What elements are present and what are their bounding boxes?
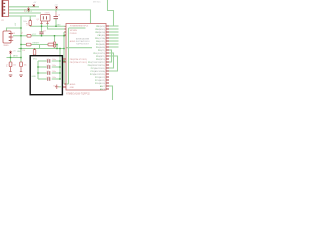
svg-text:GND: GND: [70, 87, 75, 89]
svg-text:PC2(ADC2): PC2(ADC2): [95, 76, 105, 79]
svg-text:C10: C10: [47, 77, 50, 79]
svg-text:Q1: Q1: [37, 19, 39, 21]
svg-text:PB5(SCK): PB5(SCK): [96, 26, 105, 28]
svg-text:IC3: IC3: [12, 33, 15, 35]
svg-text:PD0(RXD/PCINT16): PD0(RXD/PCINT16): [88, 65, 106, 67]
svg-text:POWER/RESET/PC6: POWER/RESET/PC6: [70, 25, 88, 27]
svg-text:C9: C9: [47, 71, 49, 73]
svg-text:PCKEN: PCKEN: [70, 33, 77, 35]
svg-text:PC0(ADC0): PC0(ADC0): [95, 82, 105, 85]
svg-text:PC5(ADC5/SCL): PC5(ADC5/SCL): [91, 67, 106, 70]
svg-text:100n: 100n: [23, 21, 27, 23]
svg-text:PB3(MOSI): PB3(MOSI): [95, 32, 105, 34]
svg-text:GND: GND: [17, 51, 22, 53]
svg-text:C8: C8: [47, 65, 49, 67]
svg-text:PB4(MISO): PB4(MISO): [95, 29, 105, 31]
svg-text:PB0(ICP1): PB0(ICP1): [96, 41, 105, 43]
svg-text:PD1(TXD/PCINT17): PD1(TXD/PCINT17): [88, 62, 105, 64]
svg-text:C3: C3: [43, 30, 45, 32]
svg-text:R2: R2: [22, 32, 24, 34]
svg-text:XTAL1: XTAL1: [26, 10, 33, 13]
svg-text:100n: 100n: [52, 77, 56, 79]
svg-text:ATMEGA168-TQFP32: ATMEGA168-TQFP32: [66, 92, 90, 95]
svg-text:PC1(ADC1): PC1(ADC1): [95, 79, 105, 82]
svg-text:PD4(XCK/T0): PD4(XCK/T0): [93, 53, 105, 55]
svg-text:AGND: AGND: [70, 83, 76, 86]
svg-text:RESET: RESET: [33, 43, 40, 45]
svg-text:TQFP32 BODY: TQFP32 BODY: [76, 44, 90, 46]
svg-text:ADC6: ADC6: [100, 88, 105, 91]
svg-text:PD6(AIN0): PD6(AIN0): [96, 46, 106, 49]
svg-text:IC2: IC2: [54, 85, 57, 87]
svg-text:78M05: 78M05: [3, 45, 9, 47]
svg-text:WPUEN: WPUEN: [70, 30, 78, 32]
svg-text:C7: C7: [47, 59, 49, 61]
svg-text:MISO: MISO: [13, 56, 19, 58]
svg-text:PB6(XTAL1/TOSC1): PB6(XTAL1/TOSC1): [70, 58, 88, 61]
svg-text:JP2: JP2: [1, 20, 4, 22]
svg-text:3V3 VCC: 3V3 VCC: [93, 1, 101, 3]
svg-text:PD7(AIN1): PD7(AIN1): [96, 43, 106, 46]
svg-text:10k: 10k: [13, 64, 16, 66]
svg-text:C4: C4: [27, 23, 29, 25]
svg-text:PB2(SS): PB2(SS): [98, 35, 106, 37]
svg-text:R4: R4: [23, 50, 25, 52]
svg-text:VCC: VCC: [32, 34, 37, 36]
svg-text:100n: 100n: [52, 59, 56, 61]
svg-text:PB1(OC1A): PB1(OC1A): [95, 37, 105, 40]
svg-text:VCC: VCC: [33, 59, 38, 61]
svg-text:PD2(INT0): PD2(INT0): [96, 59, 105, 61]
svg-text:R1: R1: [6, 64, 8, 66]
svg-text:AGND: AGND: [70, 40, 76, 43]
svg-text:PB7(XTAL2/TOSC2): PB7(XTAL2/TOSC2): [70, 61, 88, 64]
svg-text:PD5(T1): PD5(T1): [98, 50, 106, 52]
svg-text:100n: 100n: [52, 65, 56, 67]
svg-text:C5: C5: [58, 15, 60, 17]
svg-text:100n: 100n: [52, 71, 56, 73]
svg-text:PD3(INT1): PD3(INT1): [96, 56, 105, 58]
svg-text:ADC7: ADC7: [100, 85, 105, 88]
svg-text:16MHz: 16MHz: [45, 13, 51, 15]
svg-text:PC4(ADC4/SDA): PC4(ADC4/SDA): [91, 70, 106, 73]
svg-text:PC3(ADC3/PC11): PC3(ADC3/PC11): [90, 73, 105, 76]
svg-text:GND: GND: [57, 24, 62, 26]
svg-text:10k: 10k: [24, 64, 27, 66]
svg-text:GND: GND: [32, 76, 37, 78]
